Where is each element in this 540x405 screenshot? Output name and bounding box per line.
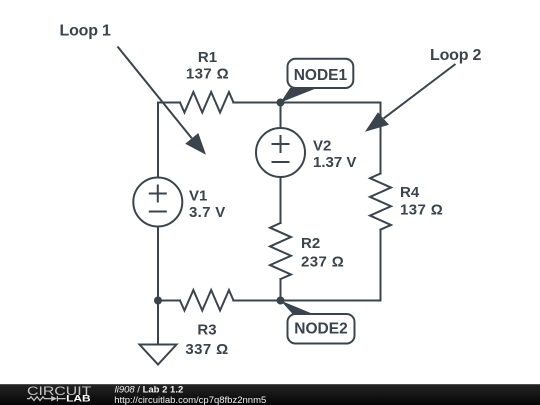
NODE1 callout pointer <box>281 88 318 103</box>
CircuitLab logo LAB <box>66 393 91 404</box>
footer title li908 / Lab 2 1.2 <box>115 385 184 396</box>
svg-text:R4: R4 <box>400 184 420 201</box>
svg-text:http://circuitlab.com/cp7q8fbz: http://circuitlab.com/cp7q8fbz2nnm5 <box>114 395 266 405</box>
label R4 value 137 Ω <box>400 184 443 219</box>
ground symbol <box>140 345 177 365</box>
label Loop 2 <box>430 47 482 64</box>
svg-text:1.37 V: 1.37 V <box>313 154 356 171</box>
label R2 value 237 Ω <box>301 235 344 271</box>
NODE1 callout box <box>288 59 354 88</box>
wire right branch lower (R4 to bottom corner) <box>380 230 382 301</box>
svg-text:V1: V1 <box>189 188 207 205</box>
svg-text:V2: V2 <box>313 138 331 155</box>
voltage source V2 symbol <box>256 128 305 177</box>
wire top right (NODE1 to top-right corner) <box>281 102 381 104</box>
svg-text:Loop 2: Loop 2 <box>430 47 482 64</box>
wire right branch upper (corner to R4) <box>380 103 382 174</box>
CircuitLab logo resistor-diode glyph <box>27 396 66 401</box>
label R1 value 137 Ω <box>186 49 229 83</box>
wire R3 to NODE2 <box>233 300 280 302</box>
resistor R1 <box>180 92 233 113</box>
wire bottom right (bottom corner to NODE2) <box>281 300 381 302</box>
svg-text:R2: R2 <box>301 235 320 252</box>
svg-text:R3: R3 <box>197 322 216 339</box>
wire R2 to node NODE2 <box>280 279 282 301</box>
svg-text:Loop 1: Loop 1 <box>60 23 112 40</box>
resistor R2 <box>270 223 291 279</box>
wire left branch (V1 to bottom corner) <box>157 227 159 301</box>
NODE2 callout box <box>288 314 355 344</box>
label R3 value 337 Ω <box>185 322 228 359</box>
label V1 value 3.7 V <box>189 188 226 222</box>
wire ground stem <box>157 301 159 345</box>
svg-text:337 Ω: 337 Ω <box>185 341 228 358</box>
svg-text:R1: R1 <box>198 49 217 66</box>
footer url <box>114 395 266 405</box>
svg-text:LAB: LAB <box>66 393 91 404</box>
svg-text:NODE2: NODE2 <box>294 321 347 338</box>
Loop 2 arrow <box>365 64 456 132</box>
label V2 value 1.37 V <box>313 138 356 172</box>
wire R3 left lead <box>158 300 180 302</box>
wire left branch (top corner to V1) <box>158 103 180 178</box>
resistor R4 <box>370 174 391 230</box>
label Loop 1 <box>60 23 112 40</box>
CircuitLab logo CIRCUIT <box>27 386 91 398</box>
wire middle branch (NODE1 to V2) <box>280 103 282 129</box>
node junction dot NODE2 <box>277 297 285 305</box>
wire R1 to node NODE1 <box>233 102 280 104</box>
node junction dot NODE1 <box>277 99 285 107</box>
NODE2 callout pointer <box>281 301 315 315</box>
resistor R3 <box>180 290 233 311</box>
Loop 1 arrow <box>118 47 207 155</box>
wire V2 to R2 <box>280 177 282 223</box>
svg-text:237 Ω: 237 Ω <box>301 254 344 271</box>
node junction dot at ground <box>154 297 162 305</box>
svg-text:3.7 V: 3.7 V <box>189 204 226 221</box>
voltage source V1 symbol <box>133 178 182 227</box>
footer bar <box>0 384 540 405</box>
svg-text:137 Ω: 137 Ω <box>186 66 229 83</box>
svg-text:137 Ω: 137 Ω <box>400 202 443 219</box>
svg-text:NODE1: NODE1 <box>294 67 348 84</box>
